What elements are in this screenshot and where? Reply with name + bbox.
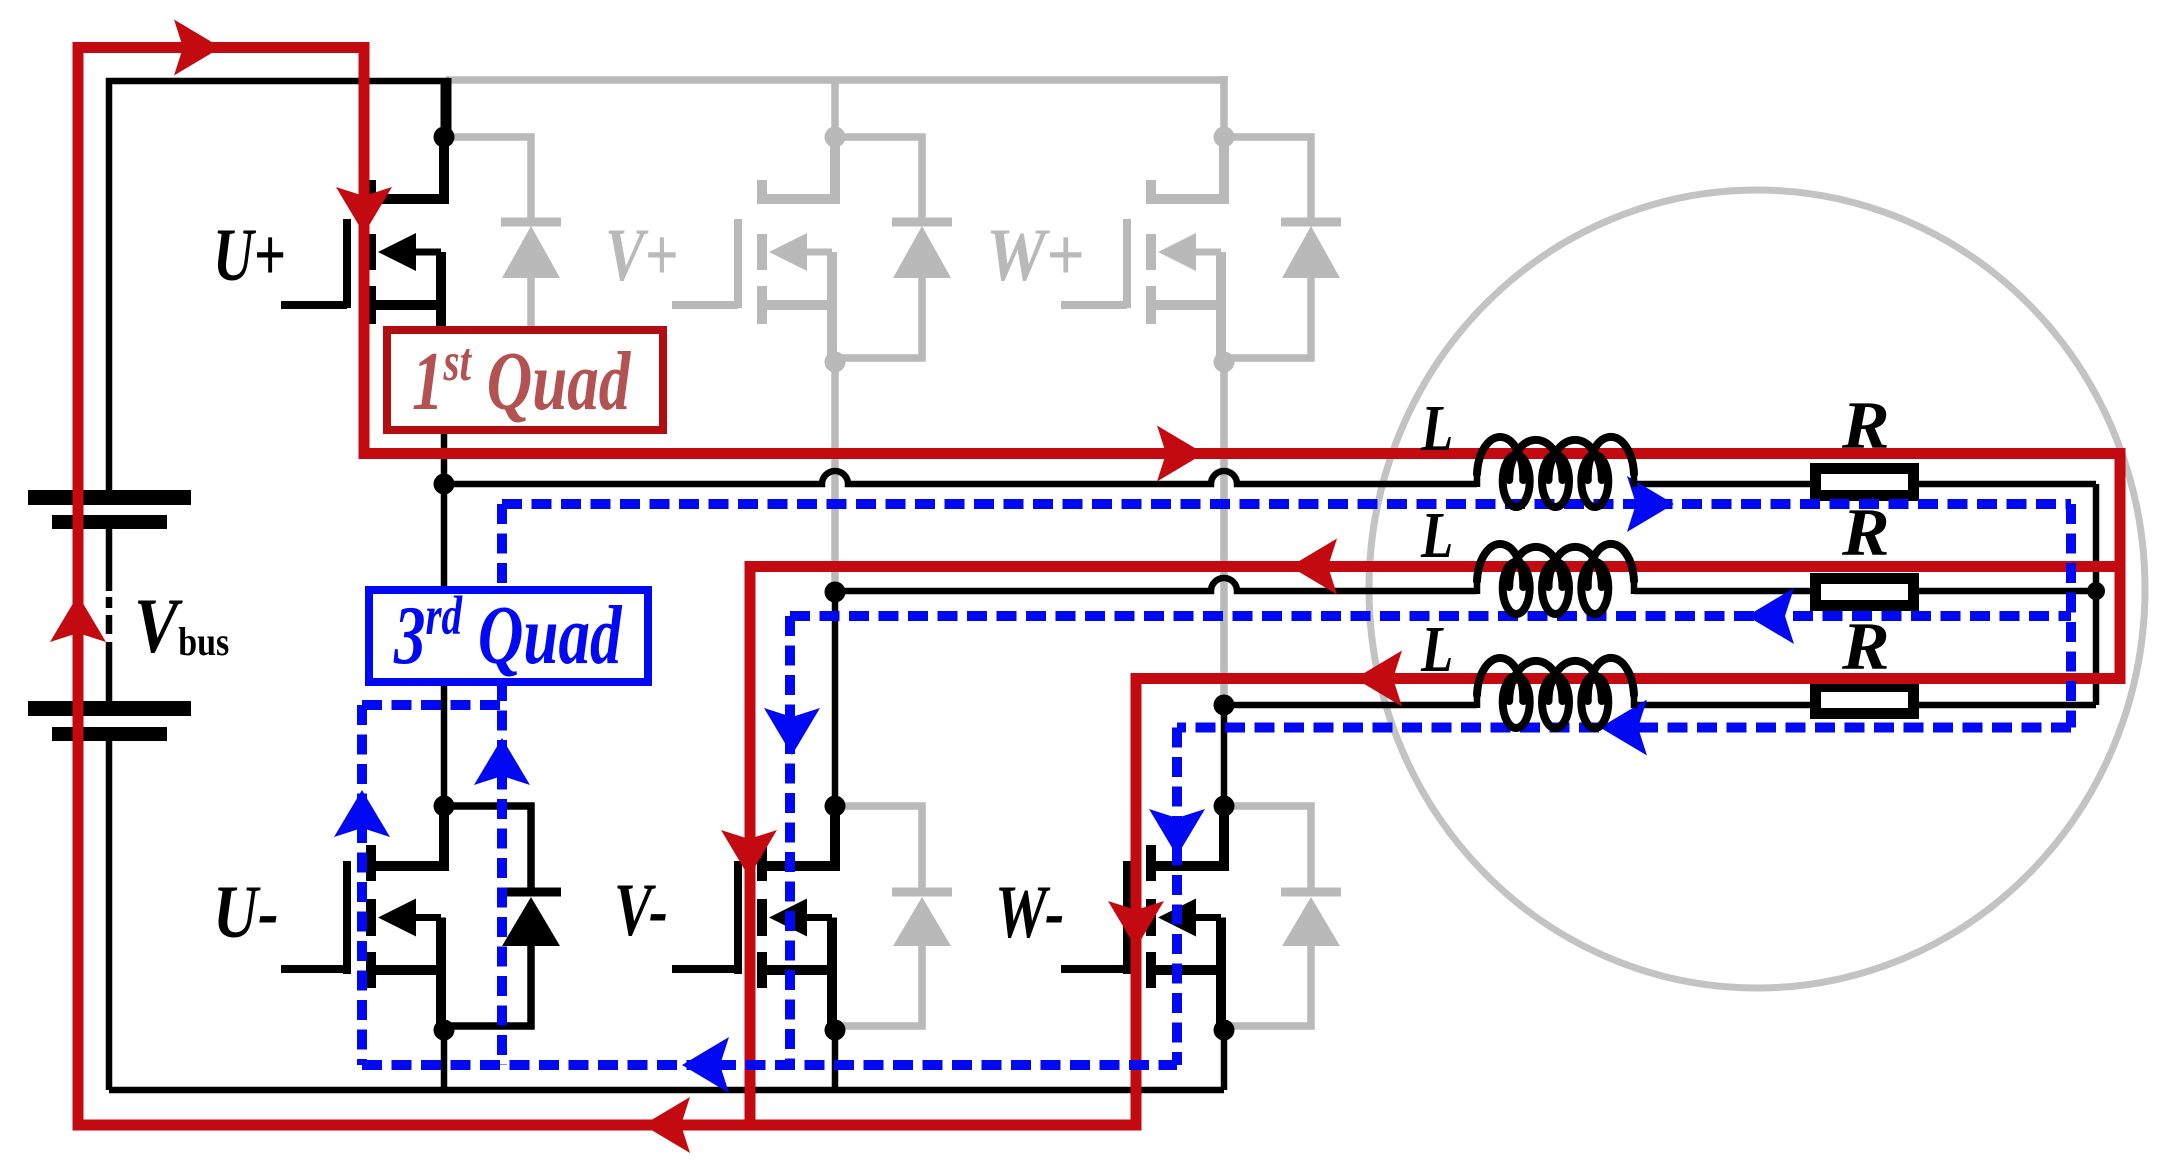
node V+ source (gray) (825, 352, 846, 373)
wire V+ leg from rail (831, 80, 839, 137)
inductor L (phase U) (1477, 437, 1634, 480)
blue current path: motor right side (2066, 504, 2076, 728)
svg-text:R: R (1841, 610, 1890, 685)
body diode of transistor U- (444, 806, 561, 1026)
capacitor C1 (28, 490, 191, 505)
svg-text:R: R (1841, 389, 1890, 464)
blue arrow (phase V return, leftward) (1747, 588, 1794, 644)
blue current path: U- loop top (362, 700, 502, 710)
red arrow (into U+, downward) (336, 187, 392, 234)
label box 1st Quad (387, 330, 663, 430)
red arrow (phase V return, leftward) (1290, 539, 1337, 595)
red arrow (left rail, upward) (50, 595, 106, 642)
node W+ source (gray) (1214, 352, 1235, 373)
node W- drain (1214, 796, 1235, 817)
node U- source (434, 1020, 455, 1041)
node U phase (434, 474, 455, 495)
red arrow (into W-, downward) (1108, 901, 1164, 948)
transistor U+ (281, 137, 444, 362)
svg-text:R: R (1841, 496, 1890, 571)
blue arrow (U- right leg, upward) (474, 738, 530, 785)
phase W wire to motor (1224, 702, 1477, 709)
blue current path: U- leg (right) (497, 504, 507, 1065)
red arrow (bottom rail, leftward) (643, 1097, 690, 1153)
node U+ source (434, 352, 455, 373)
node U- drain (434, 796, 455, 817)
body diode of transistor W+ (1224, 137, 1341, 358)
wire U+ source to U phase node (441, 362, 448, 484)
red arrow (into V-, downward) (721, 830, 777, 877)
blue current path: U- leg (left) (357, 705, 367, 1065)
wire between capacitors (dash-dot: more caps) (106, 529, 113, 591)
DC bus negative rail (left drop) (106, 741, 113, 1090)
node W- source (1214, 1020, 1235, 1041)
bottom DC- rail (109, 1087, 1224, 1094)
blue arrow (U- left leg, upward) (334, 790, 390, 837)
body diode of transistor V+ (835, 137, 952, 358)
transistor V+ (672, 137, 835, 362)
body diode of transistor W- (1224, 806, 1341, 1026)
blue current path: phase U to motor (502, 499, 2071, 509)
wire W phase node down to W- drain (1221, 705, 1228, 806)
blue current path: V- leg (785, 616, 795, 1065)
resistor R (phase V) (1816, 579, 1914, 606)
node W+ drain (gray) (1214, 127, 1235, 148)
motor right-side return wire (2093, 484, 2100, 705)
motor stator circle (1369, 190, 2145, 988)
wire U+ drain stub (441, 78, 452, 137)
wire V phase node down to V- drain (832, 592, 839, 806)
red current path: V- return branch (750, 567, 2120, 1126)
body diode of transistor U+ (444, 137, 561, 358)
wire W- source to DC- rail (1221, 1030, 1228, 1090)
svg-text:L: L (1420, 498, 1453, 571)
node V- drain (825, 796, 846, 817)
transistor V- (672, 806, 835, 1030)
svg-text:L: L (1420, 391, 1453, 464)
blue current path: phase V return (790, 611, 2071, 621)
label box 3rd Quad (369, 590, 648, 682)
phase V wire to motor (hop over W leg) (835, 578, 1477, 591)
blue current path: bottom rail (362, 1060, 1177, 1070)
svg-text:V+: V+ (605, 213, 678, 296)
DC bus top rail (109, 81, 449, 494)
blue arrow (into V-, downward) (764, 708, 820, 755)
phase U wire to motor (hops over V,W legs) (444, 471, 1477, 484)
transistor W+ (1061, 137, 1224, 362)
blue arrow (bottom rail, leftward) (682, 1037, 729, 1093)
blue current path: phase W return (1177, 723, 2071, 733)
blue arrow (phase W return, leftward) (1600, 700, 1647, 756)
node V phase (825, 582, 846, 603)
node W phase (1214, 695, 1235, 716)
node V- source (825, 1020, 846, 1041)
gray DC+ rail (inactive) (446, 76, 1228, 84)
blue arrow (into W-, downward) (1149, 809, 1205, 856)
resistor R (phase U) (1816, 469, 1914, 496)
node V+ drain (gray) (825, 127, 846, 148)
node motor neutral (2087, 582, 2105, 600)
inductor L (phase V) (1477, 544, 1634, 587)
wire V- source to DC- rail (832, 1030, 839, 1090)
body diode of transistor V- (835, 806, 952, 1026)
blue current path: W- leg (1172, 728, 1182, 1066)
capacitor C2 (28, 701, 191, 716)
wire U- source to DC- rail (441, 1030, 448, 1090)
wire W+ leg from rail (1220, 76, 1228, 141)
svg-text:W-: W- (995, 870, 1064, 954)
transistor U- (281, 806, 444, 1030)
red arrow (phase U toward motor) (1157, 426, 1204, 482)
svg-text:U-: U- (213, 871, 279, 954)
svg-text:W+: W+ (986, 214, 1084, 297)
resistor R (phase W) (1816, 687, 1914, 714)
inductor L (phase W) (1477, 658, 1634, 701)
node U+ drain (434, 127, 455, 148)
svg-text:U+: U+ (213, 214, 286, 297)
svg-text:L: L (1420, 612, 1453, 685)
wire U phase node down to U- drain (441, 484, 448, 806)
blue arrow (phase U toward motor) (1627, 476, 1674, 532)
red arrow (phase W return, leftward) (1355, 651, 1402, 707)
svg-text:V-: V- (614, 870, 668, 952)
wire W+ source to W phase node (1220, 362, 1228, 705)
wire V+ source to V phase node (831, 362, 839, 592)
transistor W- (1061, 806, 1224, 1030)
red arrow (top rail, rightward) (174, 20, 221, 76)
